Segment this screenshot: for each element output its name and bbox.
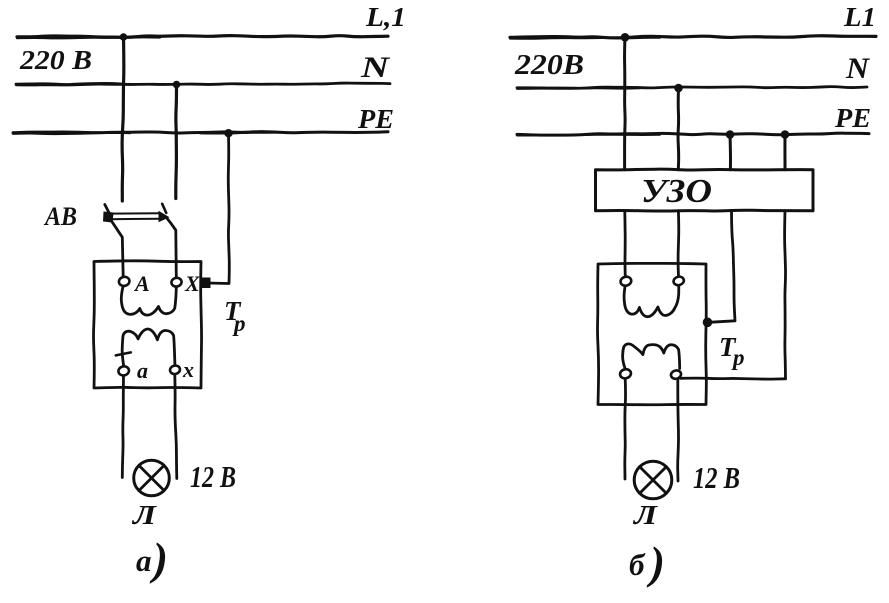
svg-text:УЗО: УЗО [641,173,712,210]
svg-text:р: р [731,345,745,370]
svg-text:Л: Л [633,500,659,530]
svg-text:N: N [360,51,391,84]
svg-text:РЕ: РЕ [357,104,394,134]
svg-text:220 В: 220 В [19,45,92,75]
svg-text:а: а [136,543,152,578]
svg-text:Л: Л [132,500,158,530]
svg-text:р: р [232,311,246,336]
svg-text:РЕ: РЕ [834,103,871,133]
svg-text:А: А [133,271,150,296]
svg-text:220В: 220В [514,50,584,81]
svg-text:): ) [646,538,665,588]
svg-text:Х: Х [184,271,201,296]
svg-text:L1: L1 [843,2,876,32]
svg-text:12 В: 12 В [693,460,740,495]
svg-text:): ) [149,534,168,584]
svg-text:х: х [182,357,194,382]
svg-text:АВ: АВ [43,202,77,231]
svg-text:N: N [845,52,870,85]
svg-text:а: а [137,358,148,383]
svg-text:12 В: 12 В [190,459,236,494]
svg-text:L,1: L,1 [365,2,406,32]
svg-text:б: б [629,547,646,582]
